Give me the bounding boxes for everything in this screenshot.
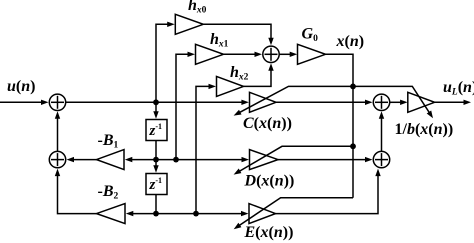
node: main line junction (delay chain / h_x0 tap) <box>153 99 159 105</box>
summing junction S2 (top adder) <box>263 46 279 62</box>
wire: riser from main line up to h_x0 input <box>156 22 175 103</box>
wire: -B2 output left and up into S3 <box>55 169 97 214</box>
delay z2 <box>146 174 167 195</box>
wire: riser from bottom line up to h_x2 input <box>196 84 216 214</box>
wire: D output into right adder S5 <box>278 157 373 162</box>
svg-text:D(x(n)): D(x(n)) <box>244 173 295 190</box>
node: mid line tap for h_x1 riser <box>173 157 179 163</box>
svg-text:1/b(x(n)): 1/b(x(n)) <box>395 121 454 138</box>
wire: C(x(n)) gain control from x(n) bus <box>234 86 353 115</box>
wire: input u(n) line into adder S1 <box>0 100 49 105</box>
node: x(n) tap for D control <box>350 143 356 149</box>
wire: D(x(n)) gain control from x(n) bus <box>234 146 353 174</box>
wire: E(x(n)) gain control from x(n) bus <box>234 198 353 230</box>
amplifier E(x(n)) <box>249 204 276 224</box>
summing junction S3 (feedback adder) <box>49 151 65 167</box>
wire: mid line right to D(x(n)) input <box>156 157 249 162</box>
amplifier D(x(n)) <box>250 150 279 170</box>
node: mid line junction at delay chain <box>153 157 159 163</box>
wire: h_x2 output up into top adder S2 <box>244 63 274 86</box>
wire: riser from mid line up to h_x1 input <box>176 52 195 160</box>
wire: output u_L(n) <box>435 100 471 105</box>
node: bottom line junction at delay chain <box>153 211 159 217</box>
summing junction S4 (upper right adder) <box>373 94 389 110</box>
delay z1 <box>146 120 167 141</box>
wire: bottom line right to E(x(n)) input <box>156 211 249 216</box>
wire: bottom line left into -B2 input <box>126 211 156 216</box>
svg-text:E(x(n)): E(x(n)) <box>244 224 294 241</box>
wire: z2 output down to bottom line <box>155 195 157 214</box>
wire: h_x1 output into top adder S2 <box>224 52 263 57</box>
svg-text:C(x(n)): C(x(n)) <box>243 115 292 132</box>
summing junction S5 (lower right adder) <box>373 151 389 167</box>
amplifier h_x1 <box>196 44 224 64</box>
wire: x(n) bus from G0 down the right side <box>326 54 354 197</box>
wire: C output into right adder S4 <box>276 100 373 105</box>
wire: S5 output up into S4 <box>379 111 384 151</box>
wire: mid line left into -B1 input <box>125 157 156 162</box>
svg-text:x(n): x(n) <box>336 33 365 50</box>
svg-text:u(n): u(n) <box>7 78 35 95</box>
wire: z1 output down through mid line into delay z2 <box>153 141 158 173</box>
wire: main line down into delay z1 <box>153 102 158 118</box>
node: x(n) tap for C and 1/b controls <box>350 84 356 90</box>
amplifier -B1 (pointing left) <box>97 150 125 170</box>
amplifier -B2 (pointing left) <box>97 204 126 224</box>
wire: S3 output up into S1 <box>55 111 60 151</box>
amplifier 1/b(x(n)) <box>408 92 435 112</box>
wire: E output right and up into S5 <box>276 169 381 214</box>
wire: S4 output to 1/b amplifier <box>390 100 408 105</box>
amplifier G0 <box>298 44 326 64</box>
wire: -B1 output into feedback adder S3 <box>67 157 97 162</box>
node: bottom line tap for h_x2 riser <box>193 211 199 217</box>
wire: S2 output to G0 <box>279 52 297 57</box>
svg-text:uL(n): uL(n) <box>443 79 474 98</box>
amplifier C(x(n)) <box>250 92 277 112</box>
summing junction S1 (input adder) <box>49 94 65 110</box>
wire: 1/b(x(n)) gain control from x(n) bus <box>353 86 433 118</box>
wire: main line from S1 to C(x(n)) input <box>66 100 249 105</box>
amplifier h_x2 <box>217 76 244 96</box>
amplifier h_x0 <box>175 14 203 34</box>
wire: h_x0 output to top adder S2 <box>203 24 273 45</box>
